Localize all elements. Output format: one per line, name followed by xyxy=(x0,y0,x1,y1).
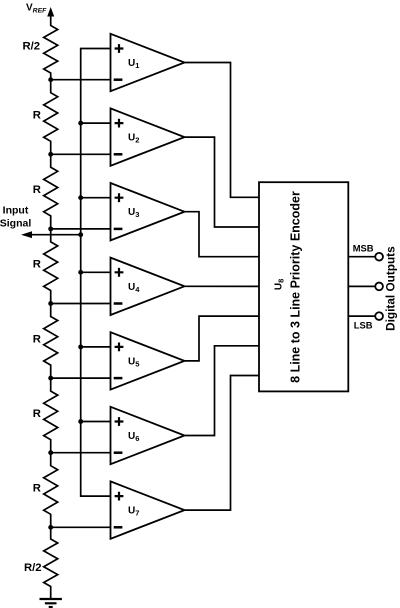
wire: U1 output to encoder input xyxy=(185,63,260,198)
resistor R (5) xyxy=(44,378,58,453)
encoder U8 (8-line to 3-line priority encoder) xyxy=(259,182,348,391)
resistor R (2) xyxy=(44,154,58,229)
wire: input signal vertical bus xyxy=(81,49,111,497)
wire: input signal lead xyxy=(30,234,81,236)
svg-text:Digital Outputs: Digital Outputs xyxy=(384,246,398,331)
wire: U3 output to encoder input xyxy=(185,212,260,257)
resistor R (4) xyxy=(44,304,58,379)
wire: MSB output xyxy=(348,256,375,258)
wire: U7 output to encoder input xyxy=(185,376,260,511)
node: input bus junction at U5 xyxy=(78,344,83,349)
resistor R/2 (bottom) xyxy=(44,527,58,599)
pin: U5 inverting (-) xyxy=(114,377,123,380)
pin: U4 non-inverting (+) xyxy=(115,268,124,277)
wire: input bus to U3 non-inverting input xyxy=(81,197,111,199)
node: input bus junction at U3 xyxy=(78,195,83,200)
op-amp U5 xyxy=(111,332,185,389)
wire: input bus to U4 non-inverting input xyxy=(81,271,111,273)
wire: ladder tap 7 to U7 inverting input xyxy=(51,526,111,528)
svg-text:R/2: R/2 xyxy=(24,562,42,574)
ground xyxy=(40,599,62,607)
op-amp U2 xyxy=(111,108,185,165)
wire: U6 output to encoder input xyxy=(185,346,260,436)
wire: ladder tap 2 to U2 inverting input xyxy=(51,153,111,155)
svg-text:Signal: Signal xyxy=(0,218,31,230)
wire: input bus to U5 non-inverting input xyxy=(81,346,111,348)
svg-text:R: R xyxy=(33,483,41,495)
node 5 (ladder tap) xyxy=(48,376,53,381)
pin: U7 non-inverting (+) xyxy=(115,492,124,501)
input signal arrowhead xyxy=(21,231,32,238)
svg-text:R: R xyxy=(33,259,41,271)
svg-text:MSB: MSB xyxy=(353,242,374,253)
svg-text:R: R xyxy=(33,110,41,122)
wire: U4 output to encoder input xyxy=(185,285,260,287)
Vref supply arrow xyxy=(47,7,54,17)
svg-text:R: R xyxy=(33,333,41,345)
node 4 (ladder tap) xyxy=(48,301,53,306)
wire: input bus to U2 non-inverting input xyxy=(81,122,111,124)
wire: middle output xyxy=(348,285,375,287)
terminal: LSB output xyxy=(375,312,383,320)
wire: Vref arrow to R/2 xyxy=(50,14,52,26)
pin: U5 non-inverting (+) xyxy=(115,343,124,352)
op-amp U7 xyxy=(111,481,185,538)
node: input bus junction at U4 xyxy=(78,270,83,275)
svg-text:Input: Input xyxy=(3,205,29,217)
node: input bus junction at U2 xyxy=(78,121,83,126)
svg-text:8 Line to 3 Line Priority Enco: 8 Line to 3 Line Priority Encoder xyxy=(289,191,303,383)
wire: ladder tap 3 to U3 inverting input xyxy=(51,228,111,230)
pin: U6 non-inverting (+) xyxy=(115,417,124,426)
wire: U5 output to encoder input xyxy=(185,316,260,361)
pin: U1 inverting (-) xyxy=(114,78,123,81)
resistor R/2 (top) xyxy=(44,26,58,80)
node 2 (ladder tap) xyxy=(48,152,53,157)
op-amp U1 xyxy=(111,34,185,91)
wire: ladder tap 6 to U6 inverting input xyxy=(51,452,111,454)
op-amp U4 xyxy=(111,258,185,315)
wire: ladder tap 4 to U4 inverting input xyxy=(51,303,111,305)
terminal: MSB output xyxy=(375,253,383,261)
node 6 (ladder tap) xyxy=(48,450,53,455)
terminal: middle output xyxy=(375,283,383,291)
wire: LSB output xyxy=(348,315,375,317)
pin: U7 inverting (-) xyxy=(114,526,123,529)
svg-text:R/2: R/2 xyxy=(23,41,41,53)
svg-text:R: R xyxy=(33,408,41,420)
node 7 (ladder tap) xyxy=(48,525,53,530)
svg-text:LSB: LSB xyxy=(354,319,373,330)
wire: ladder tap 5 to U5 inverting input xyxy=(51,377,111,379)
pin: U2 inverting (-) xyxy=(114,153,123,156)
pin: U3 non-inverting (+) xyxy=(115,193,124,202)
wire: ladder tap 1 to U1 inverting input xyxy=(51,79,111,81)
pin: U3 inverting (-) xyxy=(114,228,123,231)
node: input signal junction xyxy=(78,232,83,237)
pin: U6 inverting (-) xyxy=(114,451,123,454)
pin: U1 non-inverting (+) xyxy=(115,44,124,53)
svg-text:VREF: VREF xyxy=(26,3,47,15)
op-amp U6 xyxy=(111,407,185,464)
svg-text:R: R xyxy=(33,184,41,196)
resistor R (6) xyxy=(44,453,58,528)
node: input bus junction at U6 xyxy=(78,419,83,424)
node 3 (ladder tap) xyxy=(48,226,53,231)
node 1 (ladder tap) xyxy=(48,77,53,82)
resistor R (3) xyxy=(44,229,58,304)
op-amp U3 xyxy=(111,183,185,240)
pin: U4 inverting (-) xyxy=(114,302,123,305)
wire: U2 output to encoder input xyxy=(185,137,260,227)
pin: U2 non-inverting (+) xyxy=(115,119,124,128)
resistor R (1) xyxy=(44,80,58,155)
wire: input bus to U6 non-inverting input xyxy=(81,421,111,423)
